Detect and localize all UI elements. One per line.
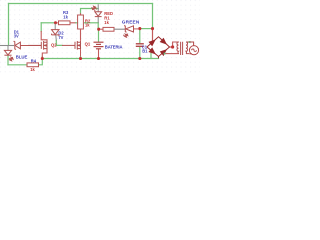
svg-text:R4: R4 — [31, 58, 37, 63]
svg-text:1k: 1k — [104, 20, 109, 25]
wire R4 row left — [8, 64, 27, 66]
transistor Q1 — [62, 41, 81, 57]
wire R4 row right — [39, 59, 43, 65]
svg-text:7V: 7V — [58, 35, 63, 40]
wire Q2 drain red hook — [41, 32, 47, 42]
node junction dot rail Q1 — [79, 57, 82, 60]
wire transformer primary bottom — [165, 53, 179, 55]
node junction dot bridge plus — [151, 27, 154, 30]
wire Q1 source green bit — [80, 57, 82, 59]
battery B2 — [94, 42, 104, 49]
wire Q2 drain drop — [40, 23, 42, 32]
wire bridge minus stub — [150, 53, 152, 58]
wire R3-R2 green bit — [76, 22, 78, 24]
LED D4 BLUE — [4, 46, 13, 61]
wire zener row left stub — [0, 45, 14, 47]
wire C1 bottom lead — [139, 47, 141, 59]
node junction dot rail battery — [97, 57, 100, 60]
wire left rail — [8, 4, 10, 46]
diode D2 zener vertical — [52, 24, 60, 41]
wire top rail — [9, 3, 153, 5]
svg-text:1k: 1k — [63, 14, 68, 19]
wire green-led node — [140, 28, 153, 30]
background grid — [0, 0, 200, 76]
pin dot bridge ac2 — [164, 53, 166, 55]
node junction dot rail Q2 — [41, 57, 44, 60]
svg-text:1k: 1k — [30, 67, 35, 72]
node junction dot transformer — [171, 45, 174, 48]
diode D1 zener — [14, 41, 42, 49]
wire C1 top lead — [139, 29, 141, 44]
wire transformer primary top — [173, 42, 179, 47]
wire battery top — [98, 29, 100, 42]
wire red bridge plus riser — [152, 29, 154, 41]
svg-text:Q2: Q2 — [51, 42, 57, 47]
svg-text:B1: B1 — [142, 48, 148, 53]
transformer TR1 — [177, 42, 189, 55]
bridge rectifier B1 — [147, 37, 170, 59]
svg-text:3V: 3V — [14, 33, 19, 38]
wire red-led cathode drop — [97, 23, 99, 29]
wire battery bottom red stub — [98, 49, 100, 58]
AC source plug — [189, 42, 198, 55]
node junction dot R1 left — [97, 28, 100, 31]
wire Q2 source red — [42, 50, 47, 57]
pin dot transformer secondary — [189, 41, 191, 43]
wire bottom rail — [42, 58, 158, 60]
LED D5 GREEN — [123, 26, 139, 38]
svg-text:1k: 1k — [85, 23, 90, 28]
LED D3 RED — [92, 4, 102, 23]
wire bridge to transformer — [170, 46, 173, 48]
capacitor C1 — [136, 44, 144, 47]
svg-text:GREEN: GREEN — [122, 20, 140, 25]
node junction dot green-led — [138, 27, 141, 30]
wire R2 right to LED column — [85, 22, 99, 24]
resistor R3 — [59, 21, 71, 25]
wire right rail — [152, 4, 154, 29]
wire blue-led cathode — [7, 56, 9, 65]
node junction dot y22.8 — [54, 21, 57, 24]
node junction dot rail C1 — [138, 57, 141, 60]
wire gate net green — [56, 41, 62, 46]
svg-text:BATERIA: BATERIA — [105, 44, 123, 49]
transistor Q2 — [28, 41, 47, 50]
pin R1 to green led — [114, 28, 125, 30]
wire Q2 source green bit — [41, 57, 43, 59]
wire y22.8 horizontal — [41, 22, 55, 24]
wire R2 top corner — [81, 9, 99, 14]
resistor R1 — [103, 27, 114, 31]
resistor R4 — [27, 63, 39, 67]
svg-text:BLUE: BLUE — [16, 55, 28, 60]
resistor R2 vertical — [78, 15, 84, 29]
svg-text:Q1: Q1 — [85, 42, 91, 47]
